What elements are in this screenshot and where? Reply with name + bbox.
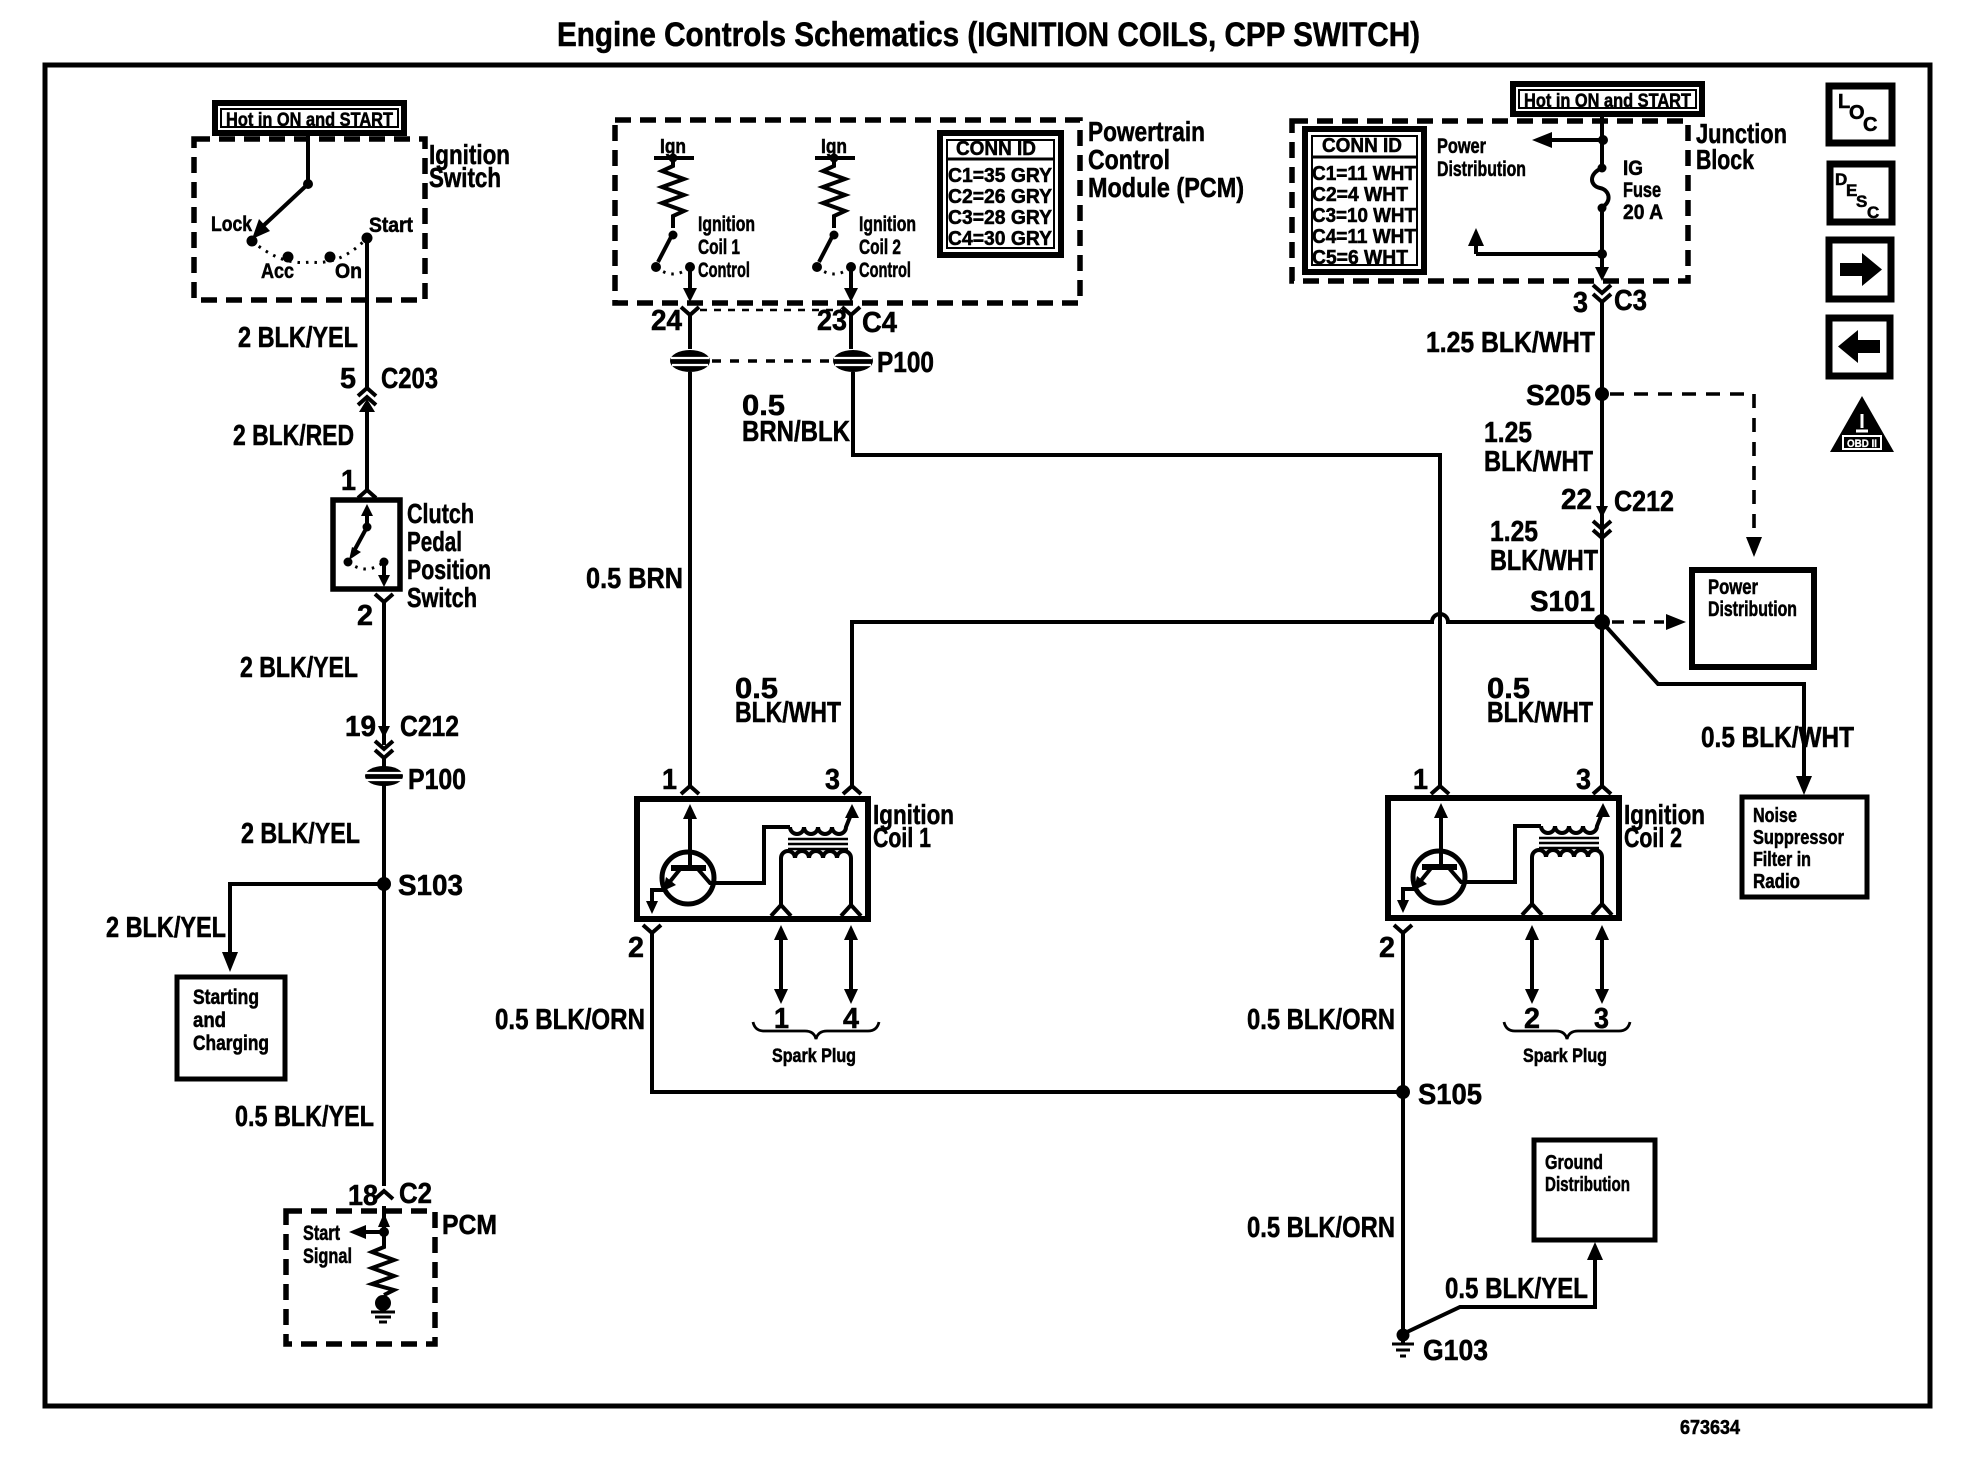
spark plug cylinder numbers 1 and 4 bbox=[774, 1003, 859, 1035]
svg-text:20 A: 20 A bbox=[1623, 201, 1663, 224]
svg-text:BLK/WHT: BLK/WHT bbox=[1490, 545, 1598, 577]
wire hot box into junction block bbox=[1600, 114, 1604, 166]
wire P100 to S103 bbox=[382, 785, 386, 1186]
svg-text:0.5 BLK/WHT: 0.5 BLK/WHT bbox=[1701, 722, 1854, 754]
ignition switch dotted arc bbox=[252, 238, 367, 263]
svg-text:Suppressor: Suppressor bbox=[1753, 827, 1844, 849]
svg-text:Coil 2: Coil 2 bbox=[859, 236, 901, 259]
connector C212 pin 22 bbox=[1561, 484, 1674, 538]
connector P100 left lens bbox=[365, 758, 466, 796]
ignition coil 1 pin 3 bbox=[825, 764, 861, 796]
coil 2 driver output arrow bbox=[844, 267, 858, 302]
PCM internal ground bbox=[371, 1295, 395, 1322]
svg-text:Starting: Starting bbox=[193, 986, 259, 1009]
ignition coil 1 pin 2 bbox=[628, 925, 661, 964]
coil 1 driver resistor bbox=[662, 158, 684, 228]
coil 1 transformer primary winding bbox=[790, 812, 852, 834]
coil 1 transistor bbox=[646, 804, 790, 914]
connector C3 pin 3 bbox=[1573, 285, 1647, 319]
svg-text:C212: C212 bbox=[1614, 486, 1674, 518]
PCM internal start signal circuit bbox=[303, 1206, 390, 1268]
svg-text:CONN ID: CONN ID bbox=[1322, 135, 1402, 157]
ground distribution box bbox=[1534, 1140, 1655, 1240]
wire from hot box into ignition switch bbox=[306, 133, 310, 184]
svg-text:C3=28 GRY: C3=28 GRY bbox=[948, 207, 1053, 229]
IG fuse label bbox=[1623, 157, 1663, 224]
hot-in-on-and-start label box (right) bbox=[1513, 84, 1702, 114]
svg-text:S105: S105 bbox=[1418, 1079, 1482, 1111]
svg-text:2: 2 bbox=[357, 600, 373, 632]
wire S101 down to coil 2 pin 3 bbox=[1600, 622, 1604, 786]
svg-text:Switch: Switch bbox=[429, 162, 501, 193]
svg-text:Signal: Signal bbox=[303, 1245, 352, 1268]
svg-text:Radio: Radio bbox=[1753, 871, 1800, 893]
svg-text:C2=4 WHT: C2=4 WHT bbox=[1312, 184, 1408, 206]
svg-text:S101: S101 bbox=[1530, 586, 1595, 618]
svg-text:PCM: PCM bbox=[442, 1209, 497, 1240]
svg-text:Module (PCM): Module (PCM) bbox=[1088, 172, 1244, 203]
wire fuse down and out of junction block bbox=[1600, 208, 1604, 268]
coil 2 driver resistor bbox=[823, 158, 845, 228]
svg-text:Coil 2: Coil 2 bbox=[1624, 822, 1682, 853]
svg-text:OBD II: OBD II bbox=[1847, 438, 1877, 450]
svg-text:C1=11 WHT: C1=11 WHT bbox=[1312, 163, 1416, 185]
svg-text:1.25: 1.25 bbox=[1490, 516, 1538, 548]
ignition switch label bbox=[429, 139, 510, 193]
svg-text:0.5 BLK/ORN: 0.5 BLK/ORN bbox=[495, 1004, 645, 1036]
svg-text:C203: C203 bbox=[381, 363, 438, 395]
svg-text:1: 1 bbox=[662, 764, 677, 796]
ground G103 bbox=[1392, 1329, 1488, 1368]
svg-text:C1=35 GRY: C1=35 GRY bbox=[948, 165, 1053, 187]
coil 1 transformer primary to pin 3 arrow bbox=[845, 804, 859, 818]
svg-text:2 BLK/YEL: 2 BLK/YEL bbox=[241, 818, 360, 850]
svg-text:C: C bbox=[1863, 114, 1877, 136]
svg-text:22: 22 bbox=[1561, 484, 1592, 516]
PCM dashed box (top middle) bbox=[615, 120, 1080, 303]
junction node dot (below fuse) bbox=[1597, 249, 1607, 259]
svg-text:2 BLK/RED: 2 BLK/RED bbox=[233, 420, 354, 452]
svg-text:Start: Start bbox=[369, 214, 413, 237]
hot-in-on-and-start label box (left) bbox=[215, 103, 404, 133]
svg-text:1: 1 bbox=[341, 465, 356, 497]
svg-text:Coil 1: Coil 1 bbox=[873, 822, 931, 853]
svg-text:Hot in ON and START: Hot in ON and START bbox=[1524, 91, 1691, 112]
ignition switch pivot dot bbox=[303, 179, 313, 189]
svg-text:Charging: Charging bbox=[193, 1032, 269, 1055]
connector C4 pin 23 bbox=[817, 305, 897, 349]
splice S103 bbox=[377, 870, 463, 902]
ignition coil 1 label bbox=[873, 799, 954, 853]
svg-text:673634: 673634 bbox=[1680, 1417, 1741, 1439]
svg-text:P100: P100 bbox=[408, 764, 466, 796]
coil 2 transformer primary to pin 3 arrow bbox=[1596, 803, 1610, 817]
ignition switch position labels bbox=[211, 213, 413, 283]
coil 2 transformer secondary winding bbox=[1532, 850, 1602, 867]
svg-text:Control: Control bbox=[698, 259, 750, 282]
svg-text:0.5 BLK/ORN: 0.5 BLK/ORN bbox=[1247, 1004, 1395, 1036]
coil 2 transformer core bbox=[1539, 838, 1599, 848]
branch wire to starting and charging bbox=[222, 884, 384, 972]
coil 2 secondary to spark terminals bbox=[1522, 861, 1612, 915]
spark plug brace coil 2 bbox=[1504, 1022, 1630, 1039]
svg-text:C: C bbox=[1867, 203, 1879, 222]
svg-text:Acc: Acc bbox=[261, 260, 294, 283]
IG fuse 20A symbol bbox=[1592, 164, 1609, 213]
coil 1 driver switch bbox=[651, 231, 695, 275]
svg-text:3: 3 bbox=[825, 764, 840, 796]
junction block dashed box bbox=[1292, 121, 1688, 281]
coil 2 transistor bbox=[1397, 803, 1541, 913]
connector C4 pin 24 bbox=[651, 305, 699, 349]
svg-text:2: 2 bbox=[1379, 932, 1395, 964]
connector C203 pin 5 bbox=[340, 363, 438, 412]
ignition coil 2 control label bbox=[859, 213, 916, 282]
wire label 1.25 BLK/WHT (two line) bbox=[1484, 417, 1593, 478]
ignition switch contact dots Lock Acc On Start bbox=[247, 233, 373, 263]
CONN ID table (PCM) bbox=[940, 133, 1061, 255]
svg-text:Engine Controls Schematics (IG: Engine Controls Schematics (IGNITION COI… bbox=[557, 16, 1420, 54]
svg-text:1.25: 1.25 bbox=[1484, 417, 1532, 449]
svg-text:Filter in: Filter in bbox=[1753, 849, 1811, 871]
ignition coil 1 pin 1 bbox=[662, 764, 699, 796]
wire ground distribution to G103 bbox=[1407, 1242, 1603, 1332]
PCM internal resistor bbox=[372, 1236, 394, 1295]
svg-text:0.5 BRN: 0.5 BRN bbox=[586, 563, 683, 595]
icon DESC bbox=[1830, 164, 1892, 222]
ignition coil 2 pin 1 bbox=[1413, 764, 1449, 796]
coil 1 driver output arrow bbox=[683, 267, 697, 302]
junction block label bbox=[1696, 118, 1787, 175]
svg-text:Lock: Lock bbox=[211, 213, 252, 236]
svg-text:C2=26 GRY: C2=26 GRY bbox=[948, 186, 1053, 208]
wire S105 down to G103 bbox=[1401, 933, 1405, 1330]
icon OBD II triangle bbox=[1830, 396, 1894, 452]
svg-text:S205: S205 bbox=[1526, 380, 1591, 412]
wire 0.5 BLK/WHT from S101 to coil 1 pin 3 (with hop) bbox=[852, 614, 1602, 786]
CONN ID table (junction block) bbox=[1305, 129, 1424, 272]
svg-text:C3: C3 bbox=[1614, 285, 1647, 317]
svg-text:Coil 1: Coil 1 bbox=[698, 236, 740, 259]
connector C212 pin 19 bbox=[345, 711, 459, 758]
svg-text:BLK/WHT: BLK/WHT bbox=[735, 697, 841, 729]
svg-text:2 BLK/YEL: 2 BLK/YEL bbox=[240, 652, 358, 684]
coil 1 transformer secondary winding bbox=[781, 851, 851, 868]
svg-text:Position: Position bbox=[407, 554, 491, 585]
svg-text:S: S bbox=[1856, 192, 1867, 211]
wire S101 to noise suppressor bbox=[1602, 622, 1812, 795]
dashed branch S205 to power distribution box bbox=[1610, 394, 1762, 557]
wire 0.5 BRN down to coil 1 pin 1 bbox=[688, 372, 692, 786]
connector C4 dashed boundary line bbox=[700, 309, 841, 312]
svg-text:C5=6 WHT: C5=6 WHT bbox=[1312, 247, 1408, 269]
svg-text:G103: G103 bbox=[1423, 1335, 1488, 1367]
svg-text:C4=30 GRY: C4=30 GRY bbox=[948, 228, 1053, 250]
svg-text:C4=11 WHT: C4=11 WHT bbox=[1312, 226, 1416, 248]
wire label 0.5 BLK/WHT (coil 2) bbox=[1487, 673, 1593, 729]
svg-text:BLK/WHT: BLK/WHT bbox=[1484, 446, 1593, 478]
clutch switch pin 1 bbox=[341, 465, 376, 498]
svg-text:Noise: Noise bbox=[1753, 805, 1797, 827]
wire label 0.5 BLK/WHT (coil 1) bbox=[735, 673, 841, 729]
svg-text:CONN ID: CONN ID bbox=[956, 138, 1036, 160]
svg-text:BRN/BLK: BRN/BLK bbox=[742, 416, 850, 448]
svg-text:C4: C4 bbox=[862, 307, 897, 339]
junction node dot (top) bbox=[1598, 135, 1608, 145]
svg-text:P100: P100 bbox=[877, 347, 934, 379]
svg-text:3: 3 bbox=[1576, 764, 1591, 796]
wire Start contact down to C203 bbox=[365, 238, 369, 388]
spark plug cylinder numbers 2 and 3 bbox=[1524, 1003, 1609, 1035]
svg-text:0.5 BLK/YEL: 0.5 BLK/YEL bbox=[235, 1101, 374, 1133]
svg-text:0.5 BLK/YEL: 0.5 BLK/YEL bbox=[1445, 1273, 1588, 1305]
clutch switch label bbox=[407, 498, 491, 613]
PCM dashed box (bottom) bbox=[286, 1211, 435, 1344]
svg-text:Ground: Ground bbox=[1545, 1152, 1603, 1174]
svg-text:BLK/WHT: BLK/WHT bbox=[1487, 697, 1593, 729]
dashed arrow S101 to power distribution box bbox=[1612, 614, 1686, 630]
svg-text:IG: IG bbox=[1623, 157, 1643, 180]
svg-text:1: 1 bbox=[1413, 764, 1428, 796]
icon LOC bbox=[1829, 86, 1892, 143]
wire 0.5 BLK/ORN coil1 pin2 to S105 bbox=[652, 933, 1403, 1092]
coil 1 transformer core bbox=[788, 839, 848, 849]
svg-text:Hot in ON and START: Hot in ON and START bbox=[226, 110, 393, 131]
power distribution label (in junction block) bbox=[1437, 135, 1526, 181]
svg-text:2: 2 bbox=[628, 932, 644, 964]
svg-text:Distribution: Distribution bbox=[1708, 598, 1797, 621]
coil 2 driver supply tick bbox=[815, 154, 855, 163]
svg-text:2 BLK/YEL: 2 BLK/YEL bbox=[238, 322, 358, 354]
svg-text:2 BLK/YEL: 2 BLK/YEL bbox=[106, 912, 226, 944]
icon arrow left bbox=[1829, 318, 1890, 376]
ignition switch dashed box bbox=[194, 139, 425, 300]
svg-text:24: 24 bbox=[651, 305, 682, 337]
svg-text:C212: C212 bbox=[400, 711, 459, 743]
power distribution box bbox=[1692, 570, 1814, 667]
wire label 1.25 BLK/WHT (below C212) bbox=[1490, 516, 1598, 577]
starting and charging box bbox=[177, 977, 285, 1079]
svg-text:Fuse: Fuse bbox=[1623, 179, 1661, 202]
clutch pedal position switch box bbox=[333, 500, 400, 589]
ignition coil 2 pin 2 bbox=[1379, 925, 1412, 964]
coil 2 transformer primary winding bbox=[1541, 811, 1603, 833]
branch arrow left to power distribution bbox=[1532, 132, 1603, 148]
svg-text:Spark Plug: Spark Plug bbox=[1523, 1046, 1607, 1067]
svg-text:C3=10 WHT: C3=10 WHT bbox=[1312, 205, 1416, 227]
coil 1 driver supply tick bbox=[654, 154, 694, 163]
svg-text:Control: Control bbox=[1088, 144, 1170, 175]
wire pin2 down to C212 bbox=[382, 600, 386, 745]
svg-text:C2: C2 bbox=[399, 1178, 432, 1210]
svg-text:0.5 BLK/ORN: 0.5 BLK/ORN bbox=[1247, 1212, 1395, 1244]
svg-text:Distribution: Distribution bbox=[1545, 1174, 1630, 1196]
clutch switch internals bbox=[344, 504, 391, 587]
clutch switch pin 2 bbox=[357, 594, 393, 632]
spark plug arrows coil 2 bbox=[1525, 925, 1609, 1004]
ignition coil 2 label bbox=[1624, 799, 1705, 853]
svg-text:Power: Power bbox=[1708, 576, 1758, 599]
splice S105 bbox=[1396, 1079, 1482, 1111]
splice S101 bbox=[1530, 586, 1610, 630]
svg-text:Clutch: Clutch bbox=[407, 498, 474, 529]
svg-text:Control: Control bbox=[859, 259, 911, 282]
svg-text:Start: Start bbox=[303, 1222, 340, 1245]
arrow out bottom of junction block bbox=[1595, 267, 1609, 281]
ignition switch wiper arm with arrowhead bbox=[252, 184, 308, 239]
svg-text:Power: Power bbox=[1437, 135, 1486, 158]
spark plug arrows coil 1 bbox=[774, 925, 858, 1004]
wire 2 BLK/RED segment bbox=[365, 404, 369, 490]
svg-text:18: 18 bbox=[348, 1180, 378, 1212]
wire C3 to S205 bbox=[1600, 300, 1604, 622]
svg-text:5: 5 bbox=[340, 363, 356, 395]
svg-text:Ignition: Ignition bbox=[859, 213, 916, 236]
splice S205 bbox=[1526, 380, 1609, 412]
wire label 0.5 BRN/BLK bbox=[742, 390, 850, 448]
noise suppressor box bbox=[1742, 797, 1867, 897]
ignition coil 2 box bbox=[1388, 798, 1619, 918]
connector P100 middle lenses bbox=[670, 347, 934, 379]
branch with up arrow inside junction block bbox=[1468, 228, 1602, 254]
icon arrow right bbox=[1829, 240, 1891, 299]
svg-text:Switch: Switch bbox=[407, 582, 477, 613]
svg-text:On: On bbox=[335, 260, 362, 283]
svg-text:1.25 BLK/WHT: 1.25 BLK/WHT bbox=[1426, 327, 1595, 359]
svg-text:Ignition: Ignition bbox=[698, 213, 755, 236]
wire 0.5 BRN/BLK to coil 2 pin 1 bbox=[853, 372, 1440, 786]
coil 2 driver switch bbox=[812, 231, 856, 275]
svg-text:Block: Block bbox=[1696, 144, 1754, 175]
PCM module label bbox=[1088, 116, 1244, 203]
svg-text:and: and bbox=[193, 1009, 226, 1032]
ignition coil 1 control label bbox=[698, 213, 755, 282]
spark plug brace coil 1 bbox=[753, 1022, 879, 1039]
ignition coil 1 box bbox=[637, 799, 868, 919]
svg-text:Distribution: Distribution bbox=[1437, 158, 1526, 181]
svg-text:S103: S103 bbox=[398, 870, 463, 902]
svg-text:3: 3 bbox=[1573, 287, 1588, 319]
svg-text:19: 19 bbox=[345, 711, 376, 743]
svg-text:Powertrain: Powertrain bbox=[1088, 116, 1205, 147]
coil 1 secondary to spark terminals bbox=[771, 862, 861, 916]
connector C2 pin 18 bbox=[348, 1178, 432, 1212]
svg-text:Pedal: Pedal bbox=[407, 526, 462, 557]
svg-text:Spark Plug: Spark Plug bbox=[772, 1046, 856, 1067]
ignition coil 2 pin 3 bbox=[1576, 764, 1611, 796]
